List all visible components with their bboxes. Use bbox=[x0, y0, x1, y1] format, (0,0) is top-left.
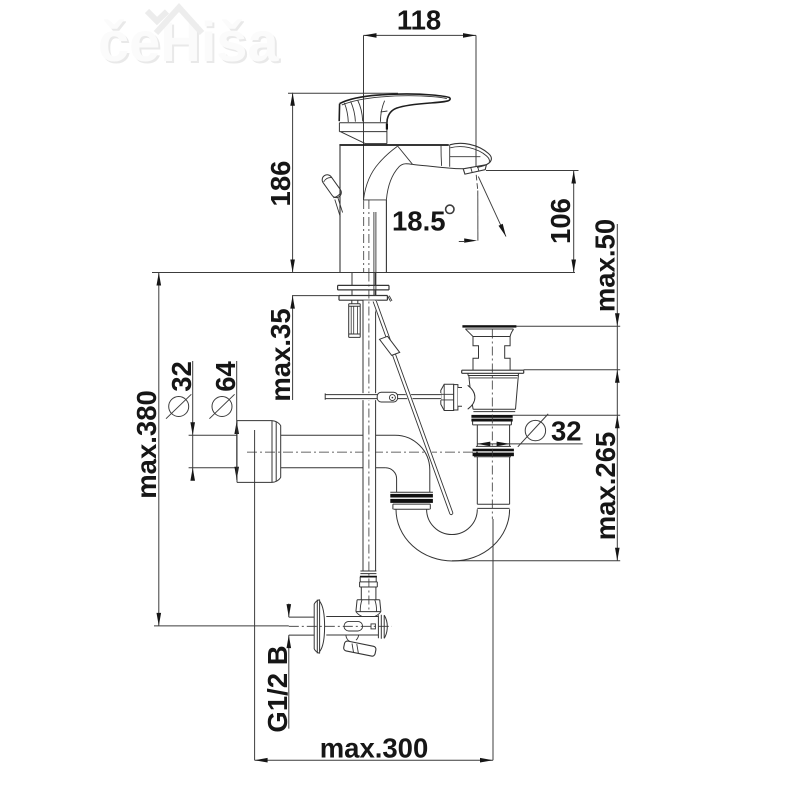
svg-text:18.5: 18.5 bbox=[392, 206, 446, 237]
waste side tee: hex nut bbox=[441, 384, 454, 410]
waste cone body bbox=[469, 376, 519, 410]
angle valve top nut bbox=[356, 600, 381, 612]
trap elbow down bbox=[386, 435, 430, 492]
dimension max.380 (far left) bbox=[131, 273, 289, 626]
waste tailpipe lower bbox=[477, 457, 509, 504]
mounting nut on stud bbox=[352, 300, 358, 304]
svg-text:max.50: max.50 bbox=[590, 219, 621, 312]
tailpipe joint at trap bbox=[477, 504, 509, 508]
angle valve handle bbox=[346, 635, 359, 642]
angle valve outlet rings bbox=[378, 615, 384, 639]
tee stem bbox=[458, 388, 469, 406]
faucet body top edge bbox=[339, 144, 448, 146]
body internal seams bbox=[364, 199, 387, 201]
svg-text:32: 32 bbox=[551, 416, 582, 447]
pop-up horizontal rod bbox=[325, 393, 441, 400]
supply tube end fitting bbox=[360, 571, 376, 574]
basin clamp flange bbox=[462, 370, 524, 373]
handle inner contour lines bbox=[342, 96, 447, 105]
spout head bbox=[450, 143, 492, 167]
dimension max.50 and max.265 shared line (right) bbox=[452, 219, 621, 561]
pop-up pull rod through deck bbox=[374, 212, 376, 296]
waste tailpipe upper bbox=[476, 425, 511, 447]
wall pipe dia32 bbox=[281, 435, 395, 468]
dimension dia32 (drain tailpipe) bbox=[477, 414, 582, 447]
svg-text:max.35: max.35 bbox=[265, 308, 296, 401]
counter deck line bbox=[152, 272, 575, 274]
waste lower rings bbox=[473, 449, 514, 452]
faucet centerlines (dash-dot) bbox=[363, 200, 365, 272]
tee washer bbox=[454, 385, 458, 410]
dimension dia64 (wall flange) bbox=[209, 361, 241, 480]
svg-text:max.300: max.300 bbox=[320, 733, 429, 764]
svg-text:118: 118 bbox=[397, 5, 441, 36]
wall flange (escutcheon dia64) bbox=[237, 421, 281, 483]
pop-up diagonal pull rod bbox=[375, 301, 452, 514]
dimension max.35 (left, under deck) bbox=[265, 296, 339, 402]
dimension max.300 (bottom) bbox=[255, 430, 493, 764]
mounting shank below deck bbox=[352, 273, 375, 296]
aerator outlet bbox=[463, 165, 486, 174]
pop-up waste upper body with notches bbox=[473, 337, 510, 371]
dimension dia32 (wall pipe) bbox=[166, 361, 237, 481]
svg-text:186: 186 bbox=[265, 161, 296, 207]
waste black seal rings bbox=[471, 415, 512, 418]
angle valve wall rosette bbox=[314, 600, 319, 654]
svg-text:106: 106 bbox=[545, 198, 576, 244]
dimension 106 (right of spout) bbox=[486, 171, 579, 273]
rod linkage sleeve bbox=[377, 392, 397, 402]
trap U-bend bbox=[396, 509, 510, 561]
handle base block bbox=[339, 123, 387, 144]
angle valve body bbox=[326, 617, 378, 636]
spout underside bbox=[412, 164, 463, 168]
trap nut bbox=[390, 491, 433, 493]
waste centerline bbox=[491, 330, 493, 520]
flexible supply tube bbox=[363, 300, 375, 571]
faucet body sides bbox=[340, 145, 386, 272]
dimension 118 (top) bbox=[364, 5, 477, 201]
watermark logo eHisa bbox=[98, 8, 281, 76]
faucet handle lever bbox=[339, 94, 450, 123]
angle valve centerline bbox=[289, 625, 392, 627]
horseshoe washer 1 bbox=[338, 285, 389, 290]
svg-text:max.380: max.380 bbox=[131, 390, 162, 499]
horseshoe washer 2 bbox=[339, 296, 387, 301]
pop-up waste top flange bbox=[462, 325, 516, 327]
dimension 186 (left of faucet) bbox=[265, 93, 398, 273]
angle valve inlet pipe G1/2 bbox=[289, 617, 314, 635]
pull rod sleeve bbox=[380, 336, 400, 355]
wall pipe centerline bbox=[247, 451, 479, 453]
tee weld bulge bbox=[462, 385, 475, 409]
side pull-rod knob bbox=[322, 175, 341, 198]
angle 18.5 deg annotation bbox=[392, 175, 506, 243]
svg-text:max.265: max.265 bbox=[590, 432, 621, 541]
dimension G1/2 B (supply connection) bbox=[262, 604, 293, 733]
